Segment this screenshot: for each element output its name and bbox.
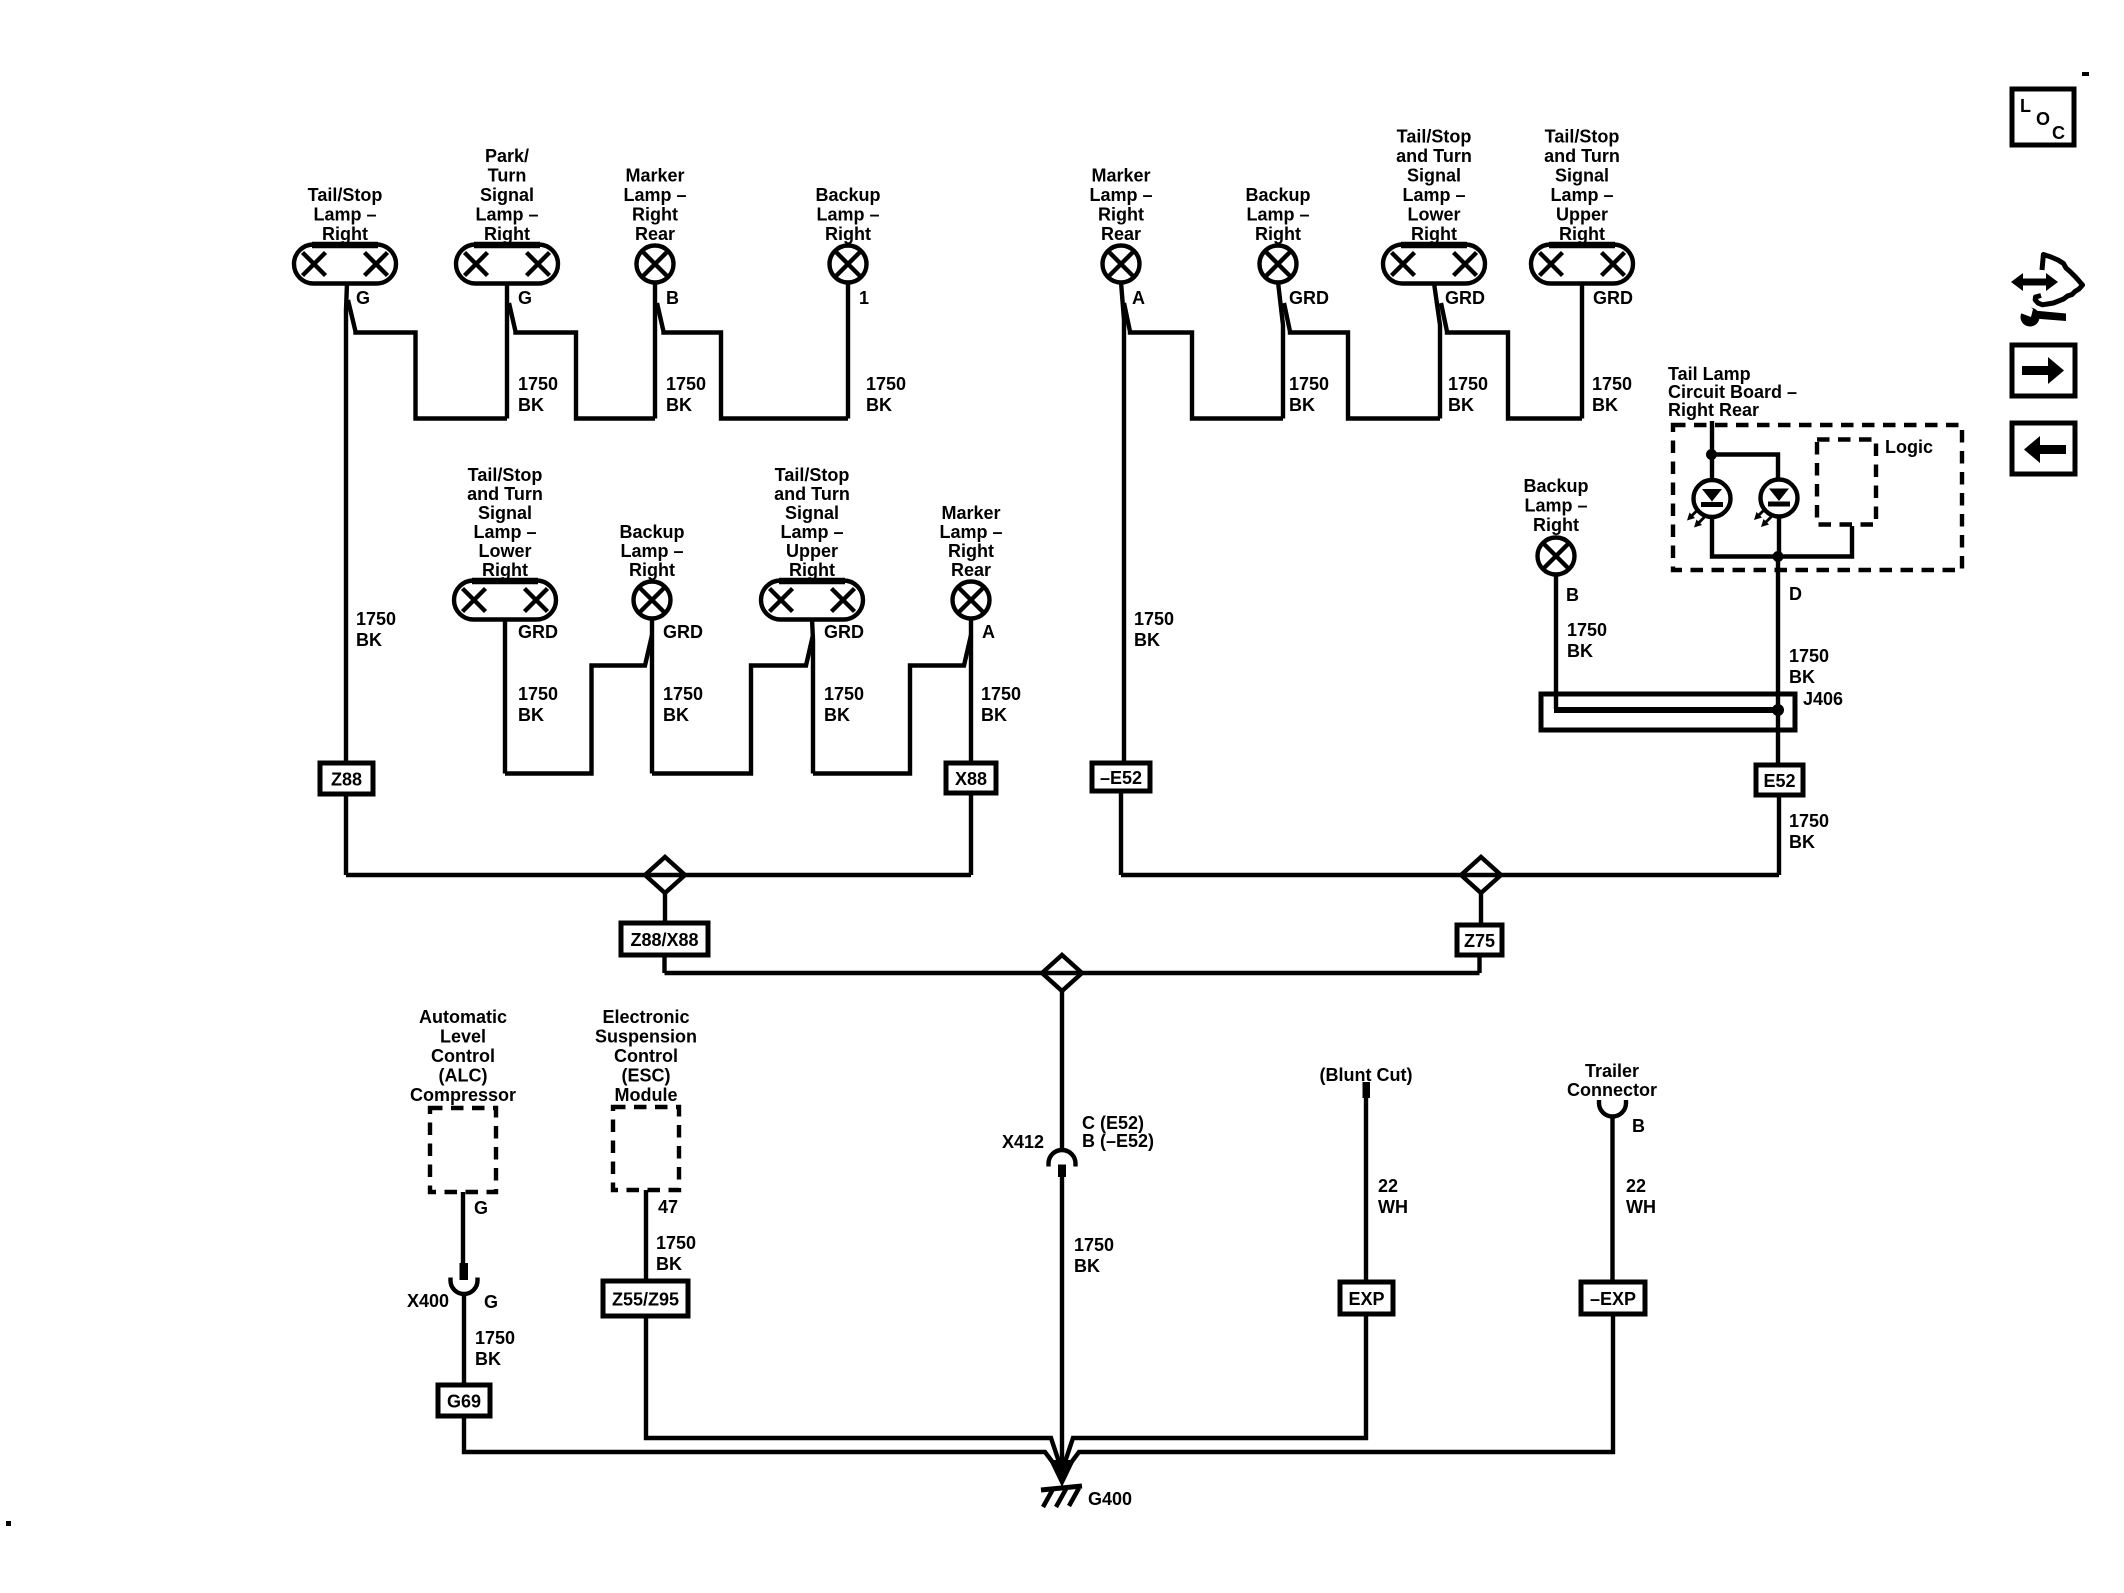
- svg-text:Rear: Rear: [635, 224, 675, 244]
- lamp E4: Backup Lamp - Right: [815, 185, 880, 283]
- svg-text:Z88: Z88: [331, 770, 362, 790]
- wire: E7 pin GRD lead: [1434, 283, 1440, 419]
- svg-text:Lower: Lower: [1407, 205, 1460, 225]
- svg-text:1750: 1750: [1289, 374, 1329, 394]
- svg-text:Right: Right: [629, 560, 675, 580]
- label: Trailer Connector: [1567, 1061, 1657, 1100]
- wire: jog E9 to E10: [505, 635, 652, 774]
- lamp E7: Tail/Stop and Turn Signal Lamp - Lower Right (row1): [1383, 127, 1485, 284]
- wire: splice to Z75 box: [1479, 893, 1483, 925]
- svg-text:Control: Control: [431, 1046, 495, 1066]
- svg-text:C: C: [2052, 123, 2065, 143]
- LED D2: [1754, 480, 1798, 528]
- svg-text:Right: Right: [1098, 205, 1144, 225]
- wire: jog E1 to E2: [348, 300, 507, 419]
- icon: next page arrow: [2012, 345, 2075, 396]
- svg-text:X400: X400: [407, 1291, 449, 1311]
- splice diamond (main ground): [1042, 955, 1082, 991]
- icon: previous page arrow: [2012, 423, 2075, 474]
- wire: jog E11 to E12: [813, 635, 971, 774]
- svg-text:GRD: GRD: [518, 622, 558, 642]
- wire: EXP to ground bus: [1065, 1314, 1366, 1462]
- wire: trailer connector to -EXP: [1610, 1117, 1614, 1283]
- svg-text:B: B: [1566, 585, 1579, 605]
- connector EXP: [1340, 1282, 1393, 1314]
- svg-text:Turn: Turn: [488, 166, 527, 186]
- svg-text:GRD: GRD: [1289, 288, 1329, 308]
- module A2: Logic block (dashed): [1817, 437, 1933, 525]
- lamp E6: Backup Lamp - Right (right half top): [1245, 185, 1310, 283]
- wire: logic stub to board bus: [1778, 526, 1852, 557]
- svg-text:Tail/Stop: Tail/Stop: [308, 185, 383, 205]
- svg-text:Level: Level: [440, 1027, 486, 1047]
- module A4: Electronic Suspension Control (ESC) Module (dashed): [595, 1007, 697, 1190]
- svg-text:Trailer: Trailer: [1585, 1061, 1639, 1081]
- svg-text:Control: Control: [614, 1046, 678, 1066]
- in-line connector X412 (male terminal): [1058, 1165, 1066, 1178]
- svg-text:Signal: Signal: [1407, 166, 1461, 186]
- svg-text:–EXP: –EXP: [1590, 1289, 1636, 1309]
- svg-text:G: G: [474, 1198, 488, 1218]
- svg-text:B: B: [666, 288, 679, 308]
- svg-text:1750: 1750: [1134, 609, 1174, 629]
- svg-text:Lamp –: Lamp –: [623, 185, 686, 205]
- connector Z88/X88: [621, 923, 708, 955]
- svg-text:Park/: Park/: [485, 146, 529, 166]
- wire: E11 pin GRD lead: [812, 619, 813, 774]
- svg-text:Compressor: Compressor: [410, 1085, 516, 1105]
- svg-text:BK: BK: [356, 630, 382, 650]
- svg-text:X412: X412: [1002, 1132, 1044, 1152]
- svg-text:Backup: Backup: [619, 522, 684, 542]
- svg-text:Tail/Stop: Tail/Stop: [1545, 127, 1620, 147]
- blunt cut terminal: [1363, 1082, 1371, 1098]
- svg-text:Marker: Marker: [1091, 166, 1150, 186]
- svg-text:and Turn: and Turn: [1544, 146, 1620, 166]
- svg-text:1750: 1750: [824, 684, 864, 704]
- svg-text:22: 22: [1626, 1176, 1646, 1196]
- svg-text:BK: BK: [1134, 630, 1160, 650]
- svg-text:Module: Module: [615, 1085, 678, 1105]
- wire: E8 pin GRD lead: [1580, 283, 1584, 419]
- svg-text:BK: BK: [1289, 395, 1315, 415]
- svg-text:Lamp –: Lamp –: [473, 522, 536, 542]
- wire: Z55/Z95 to ground bus: [646, 1316, 1059, 1462]
- wire: J406 to E52: [1776, 713, 1780, 763]
- wire: Z88/X88 box to lower bus: [662, 955, 666, 973]
- wire: Z75 box to lower bus: [1477, 955, 1481, 973]
- svg-text:Lamp –: Lamp –: [1089, 185, 1152, 205]
- decorative dash (page mark): [2082, 72, 2089, 76]
- svg-text:Right: Right: [948, 541, 994, 561]
- svg-text:WH: WH: [1378, 1197, 1408, 1217]
- svg-text:Automatic: Automatic: [419, 1007, 507, 1027]
- wire: LED D1 cathode to board bus: [1712, 517, 1778, 557]
- wire: ALC pin G to X400: [461, 1192, 465, 1263]
- svg-text:GRD: GRD: [824, 622, 864, 642]
- wire: E4 pin 1 lead: [846, 282, 850, 419]
- svg-text:E52: E52: [1763, 771, 1795, 791]
- svg-text:Right: Right: [1411, 224, 1457, 244]
- svg-text:BK: BK: [981, 705, 1007, 725]
- wire: left ground bus: [346, 873, 971, 877]
- wire: blunt cut to EXP: [1364, 1098, 1368, 1282]
- wire: E10 pin GRD lead: [650, 618, 654, 774]
- svg-text:1750: 1750: [1567, 620, 1607, 640]
- svg-text:Marker: Marker: [625, 166, 684, 186]
- wire: -E52 to right ground bus: [1119, 791, 1123, 875]
- svg-text:1750: 1750: [518, 684, 558, 704]
- svg-text:Lamp –: Lamp –: [620, 541, 683, 561]
- svg-text:Right: Right: [484, 224, 530, 244]
- svg-text:D: D: [1789, 584, 1802, 604]
- svg-text:Marker: Marker: [941, 503, 1000, 523]
- wire: E2 pin G lead: [505, 283, 509, 419]
- lamp E13: Backup Lamp - Right (near circuit board): [1523, 476, 1588, 575]
- svg-text:Logic: Logic: [1885, 437, 1933, 457]
- svg-text:G: G: [518, 288, 532, 308]
- svg-text:Lamp –: Lamp –: [475, 205, 538, 225]
- svg-text:Rear: Rear: [1101, 224, 1141, 244]
- wire: junction down to LED D1: [1710, 455, 1714, 481]
- svg-text:1750: 1750: [1592, 374, 1632, 394]
- in-line connector X400 (female half): [451, 1278, 478, 1295]
- icon: wiring repair (arrow + outline + wrench): [2011, 255, 2083, 327]
- svg-text:Tail/Stop: Tail/Stop: [775, 465, 850, 485]
- wire: -EXP to ground bus: [1067, 1314, 1613, 1468]
- trailer connector (female half): [1599, 1100, 1626, 1117]
- svg-text:Circuit Board –: Circuit Board –: [1668, 382, 1797, 402]
- svg-text:Right Rear: Right Rear: [1668, 400, 1759, 420]
- decorative dot (bottom left): [6, 1521, 11, 1526]
- svg-text:1750: 1750: [663, 684, 703, 704]
- svg-text:Backup: Backup: [815, 185, 880, 205]
- svg-text:Lamp –: Lamp –: [1550, 185, 1613, 205]
- wire: board pin D drop to J406: [1776, 557, 1780, 710]
- svg-text:and Turn: and Turn: [774, 484, 850, 504]
- svg-text:Right: Right: [789, 560, 835, 580]
- wire: main splice drop to X412: [1060, 991, 1064, 1150]
- svg-text:Tail/Stop: Tail/Stop: [468, 465, 543, 485]
- svg-text:Z75: Z75: [1464, 931, 1495, 951]
- wire: right ground bus: [1121, 873, 1779, 877]
- svg-text:22: 22: [1378, 1176, 1398, 1196]
- svg-text:O: O: [2036, 109, 2050, 129]
- connector E52: [1756, 765, 1803, 795]
- svg-text:BK: BK: [518, 395, 544, 415]
- ground G400 symbol: [1041, 1486, 1082, 1507]
- svg-text:Right: Right: [1255, 224, 1301, 244]
- wire: splice to Z88/X88 box: [663, 893, 667, 923]
- svg-text:Lamp –: Lamp –: [780, 522, 843, 542]
- svg-text:and Turn: and Turn: [1396, 146, 1472, 166]
- svg-text:Backup: Backup: [1245, 185, 1310, 205]
- svg-text:Lamp –: Lamp –: [313, 205, 376, 225]
- svg-text:G400: G400: [1088, 1489, 1132, 1509]
- wire: X88 to left ground bus: [969, 793, 973, 875]
- svg-text:L: L: [2020, 96, 2031, 116]
- wire: jog E2 to E3: [509, 303, 655, 419]
- wire: E9 pin GRD lead: [503, 619, 507, 774]
- lamp E1: Tail/Stop Lamp - Right: [294, 185, 396, 284]
- svg-text:BK: BK: [824, 705, 850, 725]
- svg-text:GRD: GRD: [1593, 288, 1633, 308]
- in-line connector X412 (female half): [1049, 1150, 1076, 1167]
- wire: LED D2 cathode to board bus: [1777, 517, 1781, 557]
- lamp E8: Tail/Stop and Turn Signal Lamp - Upper Right (row1): [1531, 127, 1633, 284]
- connector -E52: [1092, 763, 1150, 791]
- svg-text:1750: 1750: [1789, 811, 1829, 831]
- node: board bus junction at pin D: [1773, 551, 1784, 562]
- svg-text:1750: 1750: [666, 374, 706, 394]
- svg-text:BK: BK: [1592, 395, 1618, 415]
- svg-text:Backup: Backup: [1523, 476, 1588, 496]
- connector G69: [438, 1385, 490, 1416]
- svg-text:Right: Right: [1533, 515, 1579, 535]
- svg-text:Lamp –: Lamp –: [816, 205, 879, 225]
- wire: X400 to G69: [462, 1294, 466, 1385]
- svg-text:(ALC): (ALC): [439, 1066, 488, 1086]
- connector Z55/Z95: [603, 1281, 688, 1316]
- svg-text:BK: BK: [663, 705, 689, 725]
- wire: junction to LED D2 branch: [1712, 455, 1779, 480]
- svg-text:Electronic: Electronic: [602, 1007, 689, 1027]
- wire: E3 pin B lead: [653, 282, 657, 419]
- svg-text:Signal: Signal: [1555, 166, 1609, 186]
- node: J406 splice junction: [1772, 704, 1784, 716]
- svg-text:1750: 1750: [656, 1233, 696, 1253]
- svg-text:Lower: Lower: [478, 541, 531, 561]
- lamp E12: Marker Lamp - Right Rear (row2): [939, 503, 1002, 619]
- svg-text:1750: 1750: [518, 374, 558, 394]
- wire: Z88 to left ground bus: [344, 794, 348, 875]
- wire: E52 to right ground bus: [1777, 795, 1781, 875]
- svg-text:BK: BK: [656, 1254, 682, 1274]
- svg-text:1750: 1750: [1448, 374, 1488, 394]
- svg-text:Right: Right: [632, 205, 678, 225]
- svg-text:BK: BK: [666, 395, 692, 415]
- svg-text:Lamp –: Lamp –: [1246, 205, 1309, 225]
- wire: E13 pin B drop to J406: [1554, 574, 1558, 709]
- svg-text:Tail/Stop: Tail/Stop: [1397, 127, 1472, 147]
- node: board top junction: [1706, 449, 1717, 460]
- wire: jog E6 to E7: [1284, 303, 1440, 419]
- svg-text:BK: BK: [1789, 832, 1815, 852]
- svg-text:B (–E52): B (–E52): [1082, 1131, 1154, 1151]
- svg-text:1750: 1750: [475, 1328, 515, 1348]
- svg-text:Rear: Rear: [951, 560, 991, 580]
- svg-text:X88: X88: [955, 769, 987, 789]
- wire: X412 to G400: [1060, 1177, 1064, 1463]
- svg-text:BK: BK: [1074, 1256, 1100, 1276]
- svg-text:Right: Right: [1559, 224, 1605, 244]
- svg-text:Signal: Signal: [478, 503, 532, 523]
- svg-text:WH: WH: [1626, 1197, 1656, 1217]
- wire: E1 pin G long drop to Z88: [346, 283, 347, 763]
- lamp E11: Tail/Stop and Turn Signal Lamp - Upper Right (row2): [761, 465, 863, 620]
- connector -EXP: [1581, 1282, 1645, 1314]
- svg-text:Signal: Signal: [480, 185, 534, 205]
- svg-text:and Turn: and Turn: [467, 484, 543, 504]
- svg-text:G: G: [356, 288, 370, 308]
- icon: LOC box: [2012, 89, 2074, 145]
- svg-text:G: G: [484, 1292, 498, 1312]
- svg-text:C (E52): C (E52): [1082, 1113, 1144, 1133]
- svg-text:Lamp –: Lamp –: [1402, 185, 1465, 205]
- svg-text:A: A: [982, 622, 995, 642]
- svg-text:A: A: [1132, 288, 1145, 308]
- LED D1: [1687, 480, 1731, 528]
- wire: jog E10 to E11: [652, 635, 813, 774]
- wire: ESC pin 47 to Z55/Z95: [644, 1190, 648, 1281]
- svg-text:Connector: Connector: [1567, 1080, 1657, 1100]
- wire: jog E3 to E4: [657, 303, 848, 419]
- svg-text:G69: G69: [447, 1392, 481, 1412]
- svg-text:Right: Right: [322, 224, 368, 244]
- svg-text:GRD: GRD: [1445, 288, 1485, 308]
- splice diamond Z75: [1461, 857, 1501, 893]
- svg-text:Tail Lamp: Tail Lamp: [1668, 364, 1751, 384]
- wire: jog E5 to E6: [1124, 303, 1283, 419]
- wire: board supply stub: [1710, 421, 1714, 455]
- svg-text:1750: 1750: [866, 374, 906, 394]
- wire: E12 pin A drop to X88: [969, 618, 973, 763]
- svg-text:Signal: Signal: [785, 503, 839, 523]
- lamp E5: Marker Lamp - Right Rear (right half): [1089, 166, 1152, 283]
- svg-text:Right: Right: [482, 560, 528, 580]
- svg-text:Upper: Upper: [786, 541, 838, 561]
- svg-text:BK: BK: [475, 1349, 501, 1369]
- module A3: Automatic Level Control (ALC) Compressor (dashed): [410, 1007, 516, 1192]
- module A1: Tail Lamp Circuit Board - Right Rear (dashed outline): [1668, 364, 1962, 570]
- svg-text:BK: BK: [1789, 667, 1815, 687]
- svg-text:Right: Right: [825, 224, 871, 244]
- wire: E5 pin A long drop to -E52: [1121, 282, 1124, 763]
- svg-text:1750: 1750: [981, 684, 1021, 704]
- connector X88: [946, 763, 996, 793]
- svg-text:BK: BK: [1448, 395, 1474, 415]
- connector Z88: [320, 763, 373, 794]
- svg-text:Upper: Upper: [1556, 205, 1608, 225]
- wire: jog E7 to E8: [1441, 303, 1582, 419]
- in-line connector X400 (male terminal): [460, 1263, 469, 1280]
- wire: G69 to ground bus: [464, 1416, 1057, 1468]
- svg-text:1750: 1750: [1074, 1235, 1114, 1255]
- svg-text:1: 1: [859, 288, 869, 308]
- ground arrowhead convergence: [1049, 1460, 1075, 1487]
- svg-text:Z55/Z95: Z55/Z95: [612, 1290, 679, 1310]
- svg-text:EXP: EXP: [1348, 1289, 1384, 1309]
- svg-text:J406: J406: [1803, 689, 1843, 709]
- svg-text:1750: 1750: [356, 609, 396, 629]
- svg-text:47: 47: [658, 1197, 678, 1217]
- svg-text:Lamp –: Lamp –: [1524, 496, 1587, 516]
- connector J406 (pass-through with splice bar): [1541, 694, 1795, 730]
- svg-text:Z88/X88: Z88/X88: [630, 930, 698, 950]
- svg-text:GRD: GRD: [663, 622, 703, 642]
- lamp E2: Park/Turn Signal Lamp - Right: [456, 146, 558, 284]
- splice diamond Z88/X88: [645, 857, 685, 893]
- svg-text:(ESC): (ESC): [622, 1066, 671, 1086]
- lamp E9: Tail/Stop and Turn Signal Lamp - Lower Right (row2): [454, 465, 556, 620]
- svg-text:BK: BK: [866, 395, 892, 415]
- wire: lower ground bus: [665, 971, 1480, 975]
- svg-text:1750: 1750: [1789, 646, 1829, 666]
- svg-text:Suspension: Suspension: [595, 1027, 697, 1047]
- svg-text:Lamp –: Lamp –: [939, 522, 1002, 542]
- lamp E3: Marker Lamp - Right Rear: [623, 166, 686, 283]
- svg-text:BK: BK: [1567, 641, 1593, 661]
- svg-text:BK: BK: [518, 705, 544, 725]
- svg-text:B: B: [1632, 1116, 1645, 1136]
- connector Z75: [1457, 925, 1502, 955]
- svg-text:–E52: –E52: [1100, 768, 1142, 788]
- lamp E10: Backup Lamp - Right (row2): [619, 522, 684, 619]
- wire: E6 pin GRD lead: [1278, 282, 1283, 419]
